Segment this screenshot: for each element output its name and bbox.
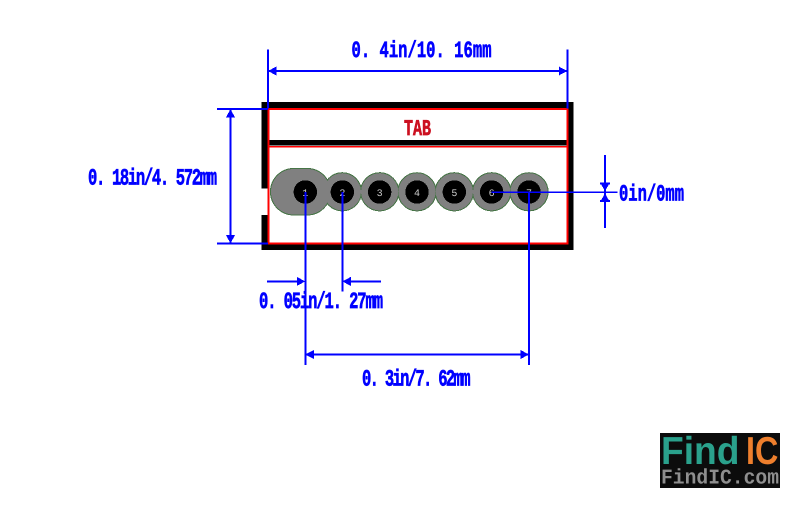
svg-text:TAB: TAB: [404, 117, 431, 143]
svg-text:6: 6: [489, 189, 495, 200]
svg-text:FindIC.com: FindIC.com: [661, 468, 779, 491]
svg-text:0. 05in/1. 27mm: 0. 05in/1. 27mm: [259, 289, 383, 316]
svg-text:0. 18in/4. 572mm: 0. 18in/4. 572mm: [88, 165, 217, 192]
svg-text:0in/0mm: 0in/0mm: [619, 181, 684, 208]
svg-text:4: 4: [414, 189, 420, 200]
svg-text:5: 5: [451, 189, 457, 200]
svg-text:0. 4in/10. 16mm: 0. 4in/10. 16mm: [352, 38, 492, 65]
svg-text:3: 3: [377, 189, 383, 200]
svg-text:0. 3in/7. 62mm: 0. 3in/7. 62mm: [362, 366, 471, 393]
